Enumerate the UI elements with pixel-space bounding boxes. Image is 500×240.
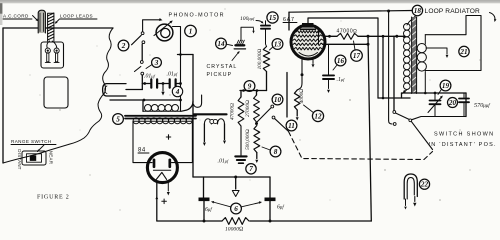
svg-text:500,000Ω: 500,000Ω bbox=[245, 129, 251, 150]
resistor R8 500000 ohm bbox=[254, 126, 260, 153]
cabinet lower box bbox=[44, 77, 68, 108]
screen wire bbox=[323, 43, 369, 45]
svg-text:7: 7 bbox=[249, 165, 253, 173]
circled 3 bbox=[152, 58, 162, 68]
wire capacitor row bbox=[142, 83, 151, 85]
svg-text:9: 9 bbox=[248, 82, 252, 90]
svg-text:6μf: 6μf bbox=[205, 207, 212, 213]
arrow LOOP LEADS bbox=[56, 19, 60, 23]
circled 12 bbox=[312, 110, 323, 121]
svg-text:20: 20 bbox=[448, 99, 457, 107]
circled 16 bbox=[335, 55, 346, 66]
filter box top bbox=[193, 176, 270, 178]
control shaft (rod) bbox=[103, 84, 126, 96]
capacitor C4b .01uf bbox=[169, 79, 171, 87]
vertical bus B+ bbox=[368, 36, 371, 221]
transformer T1 primary riser left bbox=[142, 100, 144, 111]
rail riser bbox=[401, 93, 403, 98]
tube 6A7 grids bbox=[296, 31, 319, 33]
wire box to pickup switch bbox=[178, 54, 194, 56]
circled 1 bbox=[185, 25, 197, 37]
arrow text to pickup bbox=[232, 52, 239, 61]
switch lever to linkage bbox=[412, 122, 433, 150]
loop radiator turn bbox=[425, 16, 481, 71]
ground arrow between C4a C4b bbox=[162, 84, 164, 92]
svg-text:4: 4 bbox=[175, 88, 180, 96]
filter box right bbox=[269, 177, 271, 198]
T2 bottom lead bbox=[402, 90, 407, 98]
capacitor C20 570uuf bbox=[463, 93, 465, 98]
tube 84 plate left bbox=[153, 160, 156, 167]
plug prong left bbox=[45, 48, 50, 53]
svg-text:22: 22 bbox=[420, 181, 429, 189]
circled 6 bbox=[231, 203, 242, 214]
svg-text:16: 16 bbox=[337, 57, 345, 65]
pointer 100uuf bbox=[256, 21, 263, 23]
resistor R10 27000 ohm bbox=[256, 91, 258, 96]
contact S2 lower bbox=[142, 41, 145, 44]
cap rail top bbox=[402, 92, 467, 94]
svg-text:2: 2 bbox=[121, 42, 126, 50]
polarity + mark bbox=[166, 136, 170, 138]
resistor R6 10000 ohm bbox=[222, 218, 249, 225]
plug receptacle box bbox=[41, 42, 64, 68]
arrow RANGE SWITCH bbox=[38, 145, 45, 152]
bus drop left bbox=[288, 12, 290, 30]
switch blade S10 bbox=[257, 108, 271, 123]
arrow after label bbox=[490, 13, 496, 21]
svg-text:100,000Ω: 100,000Ω bbox=[257, 49, 263, 70]
range switch knob bbox=[30, 155, 36, 161]
svg-text:LOOP RADIATOR: LOOP RADIATOR bbox=[425, 8, 481, 15]
switch pivot bbox=[409, 119, 412, 122]
circled 22 bbox=[419, 179, 429, 189]
arrow circled6 to C6a bbox=[213, 202, 231, 207]
wire rod to junction bbox=[126, 89, 142, 91]
a.c. cord plug body bbox=[38, 10, 45, 33]
loop antenna arrow right bbox=[414, 197, 416, 202]
svg-text:.01μf: .01μf bbox=[218, 159, 230, 165]
circled 21 bbox=[459, 46, 469, 56]
contact S3 upper bbox=[140, 61, 143, 64]
cabinet top edge bbox=[3, 27, 113, 29]
circled 8 bbox=[270, 146, 281, 157]
svg-text:LOOP LEADS: LOOP LEADS bbox=[60, 14, 93, 19]
svg-text:.01μf: .01μf bbox=[167, 72, 179, 78]
svg-text:17: 17 bbox=[353, 52, 361, 60]
circled 20 bbox=[448, 98, 458, 108]
page top edge (gray scan band) bbox=[0, 0, 500, 3]
svg-text:12: 12 bbox=[314, 112, 322, 120]
filter box center arrow (hollow) bbox=[235, 177, 237, 189]
mechanical link (dashed) bbox=[289, 132, 433, 160]
resistor R9 47000 ohm bbox=[240, 91, 242, 98]
pointer circled 3 bbox=[146, 65, 152, 69]
switch blade S11 bbox=[275, 119, 288, 131]
circled 13 bbox=[272, 39, 283, 50]
contact S11 bbox=[272, 116, 275, 119]
svg-text:11: 11 bbox=[288, 122, 295, 130]
wire secondary right to tube 84 bbox=[172, 121, 193, 162]
pointer circled 14 bbox=[226, 44, 232, 45]
filter box left bbox=[203, 177, 205, 198]
resistor R17 47000 ohm bbox=[337, 33, 358, 39]
loop antenna (22) outer bbox=[404, 174, 417, 199]
tube 6A7 anode lead inner bbox=[318, 32, 320, 44]
pointer circled 17 bbox=[354, 41, 356, 50]
up arrow marker at cathode bbox=[155, 196, 158, 199]
svg-text:.1μf: .1μf bbox=[337, 77, 346, 83]
arrow circled6 to C6b bbox=[242, 203, 261, 207]
wire loop lead right bbox=[52, 41, 57, 48]
loop antenna arrow left bbox=[405, 199, 407, 206]
circled 2 bbox=[118, 40, 129, 51]
tube 84 cathode lead bbox=[156, 182, 158, 221]
loop leads cable (hatched) bbox=[48, 13, 54, 41]
capacitor C7 .01uf (bypass to gnd) bbox=[235, 155, 246, 157]
circled 9 bbox=[244, 81, 255, 92]
svg-text:FIGURE 2: FIGURE 2 bbox=[37, 195, 70, 201]
transformer T1 primary winding bbox=[143, 110, 181, 112]
capacitor C16 .1uf bbox=[328, 44, 330, 75]
wire to switch hook bbox=[389, 11, 392, 124]
svg-text:19: 19 bbox=[442, 82, 450, 90]
tube V2 6A7 envelope bbox=[291, 25, 325, 59]
T2 top lead bbox=[407, 16, 416, 26]
pointer to motor bbox=[154, 22, 172, 36]
circled 7 bbox=[246, 164, 256, 174]
capacitor C6b 6uf bbox=[265, 198, 276, 202]
circled 19 bbox=[440, 80, 451, 91]
switch blade antenna bbox=[396, 113, 409, 119]
svg-text:6μf: 6μf bbox=[277, 205, 284, 211]
bottom bus wire bbox=[157, 220, 222, 222]
svg-text:IN ‘DISTANT’ POS.: IN ‘DISTANT’ POS. bbox=[429, 142, 497, 148]
circled 15 bbox=[267, 12, 278, 23]
svg-text:13: 13 bbox=[274, 40, 282, 48]
svg-text:PICKUP: PICKUP bbox=[207, 72, 233, 78]
svg-text:3: 3 bbox=[154, 59, 159, 67]
tube 84 filament arrow bbox=[167, 183, 169, 191]
loop tap with arrow bbox=[426, 48, 447, 54]
transformer T2 core bbox=[412, 17, 417, 94]
svg-text:NEAR: NEAR bbox=[49, 151, 54, 164]
svg-text:10: 10 bbox=[274, 96, 282, 104]
tube 6A7 grid cap bbox=[302, 23, 314, 28]
horizontal y98 bbox=[378, 97, 410, 99]
crystal pickup head bbox=[236, 44, 245, 46]
capacitor C6a 6uf bbox=[199, 198, 210, 202]
scan noise speckles bbox=[96, 45, 97, 46]
circled 18 bbox=[412, 5, 422, 15]
svg-text:100μμf: 100μμf bbox=[240, 16, 255, 22]
wire pickup-switch vertical bbox=[192, 55, 194, 178]
scan smudge left edge bbox=[0, 3, 2, 25]
T2 plate wire joint bbox=[403, 35, 406, 38]
svg-text:4000Ω: 4000Ω bbox=[298, 89, 305, 103]
wire motor right side down bbox=[173, 27, 181, 112]
svg-text:14: 14 bbox=[217, 40, 225, 48]
choke L1 winding bbox=[204, 119, 211, 124]
contact S2 upper bbox=[141, 32, 144, 35]
tube 6A7 top bar bbox=[301, 28, 316, 30]
wire stub bbox=[286, 73, 288, 118]
circled 4 bbox=[172, 86, 182, 96]
svg-text:27000Ω: 27000Ω bbox=[245, 100, 251, 117]
circled 14 bbox=[216, 38, 227, 49]
svg-text:8: 8 bbox=[274, 148, 278, 156]
transformer T2 primary winding bbox=[404, 24, 411, 31]
choke lead left with arrow bbox=[203, 124, 205, 142]
rail right vertical bbox=[465, 93, 467, 117]
switch S2 blade bbox=[132, 35, 142, 45]
arrow A.C. CORD bbox=[33, 16, 38, 21]
pointer circled 19 bbox=[438, 89, 442, 94]
wire pivot to cap rail bbox=[412, 117, 466, 120]
grid bus wire bbox=[240, 90, 267, 92]
wire primary top bbox=[110, 99, 181, 101]
circled 10 bbox=[272, 94, 283, 105]
wire loop lead left bbox=[47, 41, 50, 48]
cabinet torn edge (wavy) bbox=[3, 28, 113, 163]
range switch body bbox=[22, 151, 46, 165]
svg-text:SWITCH SHOWN: SWITCH SHOWN bbox=[434, 132, 495, 138]
cabinet left edge bbox=[2, 28, 4, 163]
svg-text:21: 21 bbox=[459, 48, 467, 56]
transformer T1 core bbox=[125, 115, 196, 117]
svg-text:570μμf: 570μμf bbox=[474, 102, 490, 109]
vertical to switch contact bbox=[393, 36, 395, 110]
wire motor top to switch S2 bbox=[143, 20, 160, 32]
motor M1 (phono motor) bbox=[156, 24, 173, 41]
switch S3 blade bbox=[135, 67, 141, 72]
tube 6A7 cathode arc bbox=[299, 53, 318, 57]
svg-text:15: 15 bbox=[269, 14, 277, 22]
resistor R12 4000 ohm bbox=[294, 90, 300, 110]
choke L1 core bbox=[194, 113, 227, 115]
svg-text:5: 5 bbox=[116, 115, 120, 123]
contact S10 bbox=[271, 105, 274, 108]
tube 84 plate right bbox=[168, 160, 171, 167]
circled 17 bbox=[351, 50, 363, 62]
plate wire bbox=[325, 35, 337, 37]
svg-text:A.C.CORD: A.C.CORD bbox=[3, 14, 29, 19]
capacitor C4a .01uf bbox=[150, 79, 152, 87]
contact S3 lower bbox=[141, 72, 144, 75]
C7 lead top bbox=[240, 126, 242, 155]
pointer circled 13 bbox=[270, 47, 273, 50]
loop antenna (22) inner bbox=[407, 178, 414, 200]
tube 6A7 lead bottom bbox=[297, 60, 302, 91]
wire S3 down to capacitor line bbox=[141, 75, 143, 90]
svg-text:47000Ω: 47000Ω bbox=[229, 103, 236, 120]
circled 5 bbox=[113, 114, 124, 125]
svg-text:DISTANT: DISTANT bbox=[17, 149, 22, 170]
pointer circled 12 bbox=[304, 105, 314, 113]
svg-text:10000Ω: 10000Ω bbox=[225, 227, 243, 233]
plug prong right bbox=[54, 48, 59, 53]
tube V1 84 envelope bbox=[147, 153, 177, 183]
junction R10/R8 bbox=[255, 122, 258, 125]
circled 11 bbox=[286, 120, 297, 131]
capacitor C15 100uuf bbox=[265, 21, 267, 26]
svg-text:47000Ω: 47000Ω bbox=[337, 29, 358, 35]
svg-text:1: 1 bbox=[189, 27, 193, 35]
svg-text:CRYSTAL: CRYSTAL bbox=[207, 64, 238, 70]
wire y18 link (grid cap feed) bbox=[308, 18, 378, 98]
R13 lower lead bbox=[266, 72, 268, 91]
pointer circled 8 bbox=[262, 147, 270, 150]
wire secondary left to tube 84 bbox=[133, 121, 152, 162]
svg-text:6: 6 bbox=[234, 205, 238, 213]
transformer T1 secondary winding bbox=[133, 120, 192, 122]
svg-text:PHONO-MOTOR: PHONO-MOTOR bbox=[169, 13, 225, 19]
wire S2 to S3 bbox=[141, 44, 143, 60]
transformer T2 secondary (loop coil) bbox=[417, 44, 426, 53]
svg-text:.01μf: .01μf bbox=[144, 74, 156, 80]
variable capacitor C19 bbox=[434, 93, 436, 100]
top bus wire bbox=[289, 11, 412, 13]
svg-text:RANGE SWITCH: RANGE SWITCH bbox=[11, 139, 52, 144]
resistor R13 100000 ohm bbox=[263, 47, 269, 72]
plus mark below tube bbox=[162, 200, 167, 202]
vertical screen feed bbox=[382, 36, 384, 98]
pointer circled 16 bbox=[333, 65, 337, 70]
svg-text:18: 18 bbox=[414, 7, 422, 15]
pickup lead bbox=[241, 27, 254, 40]
choke lead right with arrow bbox=[224, 124, 226, 140]
tube 84 filament bbox=[153, 169, 170, 171]
tube 6A7 arrow bottom bbox=[312, 60, 314, 64]
